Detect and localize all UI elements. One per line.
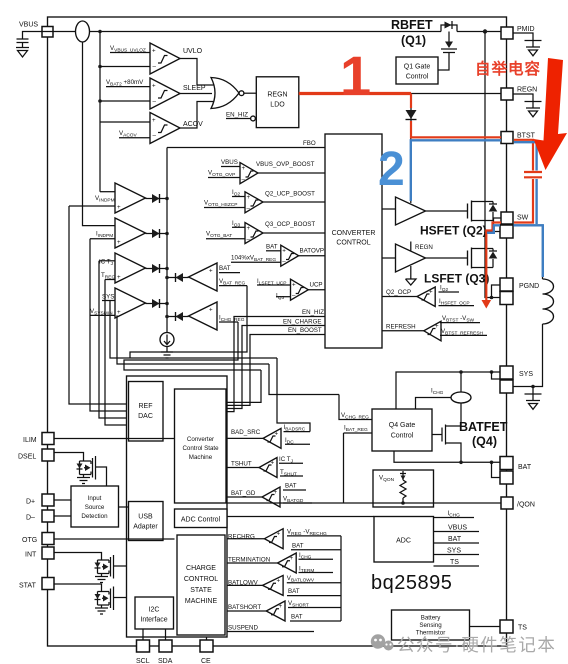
comparator UCP xyxy=(291,279,309,300)
svg-text:ADC Control: ADC Control xyxy=(181,517,221,524)
svg-text:+: + xyxy=(277,531,281,538)
wire gate to REGN LDO xyxy=(244,92,256,94)
svg-text:–: – xyxy=(153,63,157,70)
wire INT to FET xyxy=(54,553,102,561)
svg-text:REGN: REGN xyxy=(267,92,287,99)
amplifier BAT/VBAT_REG xyxy=(189,263,218,291)
svg-text:+: + xyxy=(290,555,294,562)
svg-text:(Q1): (Q1) xyxy=(401,34,426,48)
wire SW to inductor xyxy=(514,225,543,279)
wire blue path 2 BTST to driver xyxy=(411,140,501,201)
svg-text:CONVERTER: CONVERTER xyxy=(332,230,376,237)
amplifier EA1 VINDPM xyxy=(115,183,146,213)
svg-text:+: + xyxy=(152,117,156,124)
svg-text:–: – xyxy=(247,205,251,212)
svg-text:–: – xyxy=(153,133,157,140)
svg-text:VBUS: VBUS xyxy=(448,525,467,532)
block VQON xyxy=(373,470,434,507)
svg-text:OTG: OTG xyxy=(22,537,37,544)
svg-text:REGN: REGN xyxy=(517,86,537,93)
pin BAT (dual) xyxy=(500,457,513,470)
svg-text:BAT: BAT xyxy=(292,542,304,549)
driver HS xyxy=(396,197,426,225)
svg-text:RBFET: RBFET xyxy=(391,18,433,32)
svg-text:–: – xyxy=(292,293,296,300)
svg-text:ACOV: ACOV xyxy=(183,121,203,128)
svg-text:SLEEP: SLEEP xyxy=(183,85,206,92)
svg-text:+: + xyxy=(279,603,283,610)
VBUS input cap xyxy=(23,32,54,40)
svg-text:EN_HIZ: EN_HIZ xyxy=(226,112,248,119)
svg-text:Control: Control xyxy=(406,74,429,81)
node VBUS bus xyxy=(98,30,102,34)
arrow big red xyxy=(534,58,568,170)
comparator SLEEP xyxy=(150,78,180,109)
svg-text:Q2_OCP: Q2_OCP xyxy=(386,289,411,296)
pin /QON xyxy=(501,497,513,509)
svg-text:BATOVP: BATOVP xyxy=(300,248,325,255)
svg-text:Converter: Converter xyxy=(187,436,214,443)
svg-text:Battery: Battery xyxy=(421,615,442,622)
diode EA1 xyxy=(146,198,168,200)
svg-text:TS: TS xyxy=(450,559,459,566)
svg-text:VBUS_OVP_BOOST: VBUS_OVP_BOOST xyxy=(256,161,315,168)
wire ICHG_REG loop xyxy=(124,322,261,370)
chip outline xyxy=(48,17,507,646)
pin SDA xyxy=(159,640,172,652)
ground (PMID cap) xyxy=(529,50,538,56)
svg-text:bq25895: bq25895 xyxy=(371,572,452,594)
svg-text:PMID: PMID xyxy=(517,26,535,33)
svg-text:+: + xyxy=(247,225,251,232)
svg-text:Control State: Control State xyxy=(182,445,219,452)
svg-text:CE: CE xyxy=(201,658,211,664)
ground arrow (VBUS cap) xyxy=(18,51,28,58)
svg-text:Interface: Interface xyxy=(140,617,167,624)
block Input Source Detection xyxy=(71,486,119,527)
svg-text:ADC: ADC xyxy=(396,538,411,545)
wire REGN LDO to REGN pin xyxy=(299,93,501,95)
wire blue SW jog xyxy=(487,225,500,233)
svg-text:EN_BOOST: EN_BOOST xyxy=(288,327,322,334)
driver LS xyxy=(396,244,426,272)
svg-text:SYS: SYS xyxy=(102,294,114,301)
amplifier ICHG_REG xyxy=(189,302,218,330)
amplifier EA2 IINDPM xyxy=(115,218,146,248)
wire SW node xyxy=(484,221,486,249)
wire REGN to bootstrap diode xyxy=(410,94,412,138)
watermark logo xyxy=(371,634,394,650)
svg-text:MACHINE: MACHINE xyxy=(185,598,218,605)
capacitor bootstrap (red) xyxy=(524,172,542,177)
svg-text:VBUS: VBUS xyxy=(19,22,38,29)
wire ellipse sense down xyxy=(83,42,116,226)
svg-text:+: + xyxy=(435,323,439,330)
svg-text:+: + xyxy=(152,48,156,55)
svg-text:1: 1 xyxy=(340,44,371,107)
arrow red down (LSFET path) xyxy=(482,300,492,309)
svg-text:BAD_SRC: BAD_SRC xyxy=(231,429,261,436)
svg-text:LSFET (Q3): LSFET (Q3) xyxy=(424,272,489,286)
svg-text:CHARGE: CHARGE xyxy=(186,565,216,572)
diode bootstrap D1 xyxy=(406,110,417,119)
svg-text:+: + xyxy=(247,194,251,201)
svg-text:+: + xyxy=(152,83,156,90)
svg-text:CONTROL: CONTROL xyxy=(184,576,218,583)
svg-text:SDA: SDA xyxy=(158,658,173,664)
ground (STAT FET) xyxy=(95,605,108,614)
diode ICHG amp xyxy=(167,316,189,318)
block CONVERTER CONTROL xyxy=(325,134,382,348)
block Q1 Gate Control xyxy=(396,57,438,84)
wire BTST net xyxy=(411,137,501,139)
svg-text:BAT: BAT xyxy=(291,614,303,621)
comparator Q2_UCP xyxy=(245,192,263,213)
block USB Adapter xyxy=(129,502,164,541)
inductor L1 xyxy=(543,279,554,324)
wire left bundle verticals xyxy=(69,206,127,404)
wire SDA xyxy=(165,629,167,640)
svg-text:LDO: LDO xyxy=(270,102,285,109)
svg-text:BTST: BTST xyxy=(517,132,536,139)
wire ACOV to gate xyxy=(180,102,214,129)
wire /QON xyxy=(227,502,501,504)
wire LS driver to Q3 gate xyxy=(426,257,468,259)
amplifier EA4 VSYSMIN xyxy=(115,288,146,318)
resistor R_QON xyxy=(400,471,406,503)
svg-text:+: + xyxy=(242,165,246,172)
pin SW (dual) xyxy=(501,212,513,224)
pin SYS (dual) xyxy=(500,366,513,379)
block Q4 Gate Control xyxy=(372,409,432,451)
wire blue right drop xyxy=(514,142,543,277)
svg-text:CONTROL: CONTROL xyxy=(336,240,370,247)
svg-text:SUSPEND: SUSPEND xyxy=(228,625,258,632)
pin OTG xyxy=(42,533,54,545)
block digital core container xyxy=(127,376,228,637)
svg-text:PGND: PGND xyxy=(519,283,539,290)
capacitor SYS bypass xyxy=(531,385,535,389)
svg-text:–: – xyxy=(153,98,157,105)
pin D+ xyxy=(42,494,54,506)
pin ILIM xyxy=(42,433,54,445)
ground (SYS cap) xyxy=(529,404,538,410)
svg-text:REFRESH: REFRESH xyxy=(386,324,416,331)
pin REGN xyxy=(501,88,513,100)
wire EA bus xyxy=(166,148,168,333)
svg-text:Adapter: Adapter xyxy=(133,524,158,531)
wire red path cap to SW xyxy=(486,179,533,301)
svg-text:Source: Source xyxy=(85,504,105,511)
amplifier EA3 TREG xyxy=(115,253,146,283)
wire Q1 to PMID xyxy=(457,31,501,33)
svg-text:SW: SW xyxy=(517,215,529,222)
svg-text:BAT: BAT xyxy=(288,588,300,595)
svg-text:TS: TS xyxy=(518,625,527,632)
signal REGN to LS driver xyxy=(410,242,412,251)
pin DSEL xyxy=(42,449,54,461)
svg-text:UVLO: UVLO xyxy=(183,48,203,55)
svg-text:STATE: STATE xyxy=(190,587,212,594)
svg-text:STAT: STAT xyxy=(19,583,37,590)
ground (REGN cap) xyxy=(529,111,538,117)
pin BTST xyxy=(501,132,513,144)
wire UVLO to gate xyxy=(180,59,214,86)
svg-text:–: – xyxy=(247,236,251,243)
svg-text:–: – xyxy=(242,176,246,183)
wire D+ xyxy=(54,499,71,501)
svg-text:UCP: UCP xyxy=(310,282,323,289)
node PMID xyxy=(483,29,487,33)
ground (LS driver) xyxy=(406,266,417,285)
wire BAT node xyxy=(394,451,500,462)
transistor STAT FET xyxy=(98,592,110,606)
svg-text:Q2_UCP_BOOST: Q2_UCP_BOOST xyxy=(265,191,315,198)
block ADC xyxy=(374,517,434,563)
svg-text:BAT_GD: BAT_GD xyxy=(231,490,256,497)
svg-text:DSEL: DSEL xyxy=(18,454,36,461)
svg-text:BATFET: BATFET xyxy=(459,420,508,434)
svg-text:EN_CHARGE: EN_CHARGE xyxy=(283,319,322,326)
wire DSEL xyxy=(54,453,84,462)
diode EA3 xyxy=(146,268,168,270)
svg-text:EN_HIZ: EN_HIZ xyxy=(302,309,324,316)
transistor INT FET xyxy=(98,560,110,574)
wire inductor to SYS xyxy=(514,324,543,387)
svg-text:ILIM: ILIM xyxy=(23,437,37,444)
capacitor REGN bypass xyxy=(513,94,533,101)
svg-text:BAT: BAT xyxy=(448,536,462,543)
transistor DSEL FET xyxy=(80,461,92,475)
svg-text:自举电容: 自举电容 xyxy=(475,59,541,78)
wire ISD to USB adapter xyxy=(119,506,129,508)
svg-text:SCL: SCL xyxy=(136,658,150,664)
svg-text:RECHRG: RECHRG xyxy=(228,534,255,541)
svg-text:+: + xyxy=(277,578,281,585)
comparator VBUS_OVP xyxy=(240,163,258,184)
wire BAT sense bus xyxy=(340,536,342,621)
pin VBUS xyxy=(42,27,53,38)
current source ICHG xyxy=(160,333,174,347)
pin TS xyxy=(500,620,513,633)
diode EA2 xyxy=(146,233,168,235)
svg-text:+: + xyxy=(117,274,121,281)
svg-text:D+: D+ xyxy=(26,499,35,506)
wire bundle right drops xyxy=(277,358,310,432)
gate NOR U1 xyxy=(211,78,239,109)
svg-text:SYS: SYS xyxy=(519,371,533,378)
capacitor PMID bypass xyxy=(513,33,533,40)
block I2C Interface xyxy=(135,597,174,629)
block ADC Control xyxy=(175,509,228,528)
pin D- xyxy=(42,510,54,522)
wire VBUS rail to Q1 xyxy=(330,31,441,33)
wire converter to HS driver xyxy=(382,208,396,210)
svg-text:BATSHORT: BATSHORT xyxy=(228,604,261,611)
comparator UVLO xyxy=(150,43,180,74)
svg-text:SYS: SYS xyxy=(447,548,461,555)
svg-text:Sensing: Sensing xyxy=(419,622,442,629)
wire ADC control to ADC xyxy=(227,516,374,518)
svg-text:Q1 Gate: Q1 Gate xyxy=(404,64,431,71)
svg-text:REF: REF xyxy=(139,403,153,410)
svg-text:D–: D– xyxy=(26,515,35,522)
svg-text:2: 2 xyxy=(378,143,405,196)
diode EA4 xyxy=(146,303,168,305)
svg-text:+: + xyxy=(209,268,213,275)
svg-text:INT: INT xyxy=(25,552,37,559)
svg-text:REGN: REGN xyxy=(415,244,433,251)
pin SCL xyxy=(137,640,150,652)
svg-text:+: + xyxy=(282,248,286,255)
svg-text:Q4 Gate: Q4 Gate xyxy=(389,422,416,429)
wire OTG xyxy=(54,538,175,540)
wire red path 1 REGN to BTST xyxy=(299,92,411,95)
pin PMID xyxy=(501,27,513,39)
pin CE xyxy=(200,640,213,652)
wire HS driver to Q2 gate xyxy=(426,210,468,212)
wire CE xyxy=(206,637,208,640)
comparator BATOVP xyxy=(281,245,299,266)
svg-text:+: + xyxy=(117,239,121,246)
svg-text:+: + xyxy=(429,289,433,296)
svg-text:HSFET (Q2): HSFET (Q2) xyxy=(420,224,487,238)
svg-text:BAT: BAT xyxy=(219,265,231,272)
svg-text:Q3_OCP_BOOST: Q3_OCP_BOOST xyxy=(265,221,315,228)
block Converter Control State Machine xyxy=(175,389,227,503)
svg-text:DAC: DAC xyxy=(138,413,153,420)
wire SCL xyxy=(142,629,144,640)
svg-text:+: + xyxy=(292,282,296,289)
wire ILIM xyxy=(54,438,175,440)
comparator ACOV xyxy=(150,113,180,144)
input current sense ellipse xyxy=(53,31,330,33)
svg-text:公众号·硬件笔记本: 公众号·硬件笔记本 xyxy=(397,635,556,655)
pin INT xyxy=(42,547,54,559)
svg-text:Machine: Machine xyxy=(189,454,213,461)
block REF DAC xyxy=(129,382,164,442)
ground (INT FET) xyxy=(95,574,108,583)
pin STAT xyxy=(42,578,54,590)
svg-text:VBUS: VBUS xyxy=(221,159,238,166)
comparator Q3_OCP xyxy=(245,223,263,244)
wire VBAT_REG loop xyxy=(130,286,247,358)
wire SYS node xyxy=(396,372,500,409)
svg-text:Detection: Detection xyxy=(81,513,108,520)
svg-text:+: + xyxy=(117,204,121,211)
svg-text:FBO: FBO xyxy=(303,140,316,147)
wire BTST to HS driver xyxy=(410,138,412,204)
svg-text:Input: Input xyxy=(88,495,102,502)
svg-text:Control: Control xyxy=(391,433,414,440)
block CHARGE CONTROL STATE MACHINE xyxy=(177,535,225,635)
svg-text:(Q4): (Q4) xyxy=(472,435,497,449)
wire thermistor to TS xyxy=(470,626,501,628)
svg-text:BAT: BAT xyxy=(266,244,278,251)
svg-text:/QON: /QON xyxy=(517,502,535,509)
svg-text:TSHUT: TSHUT xyxy=(231,461,252,468)
svg-text:+: + xyxy=(209,307,213,314)
wire SLEEP to gate xyxy=(180,93,212,95)
wire converter to LS driver xyxy=(382,257,396,259)
block REGN LDO xyxy=(256,77,299,128)
wire STAT to FET xyxy=(54,584,102,592)
svg-text:USB: USB xyxy=(138,514,153,521)
svg-text:BAT: BAT xyxy=(285,483,297,490)
svg-text:I2C: I2C xyxy=(149,607,160,614)
pin PGND (dual) xyxy=(500,278,513,291)
svg-text:BAT: BAT xyxy=(518,464,532,471)
svg-text:–: – xyxy=(282,259,286,266)
svg-text:+: + xyxy=(117,309,121,316)
wire D- xyxy=(54,515,71,517)
diode BAT amp xyxy=(167,277,189,279)
block Battery Sensing Thermistor xyxy=(392,610,470,640)
wire Q3 source to PGND xyxy=(485,268,500,298)
wire PMID internal bus xyxy=(484,32,486,202)
